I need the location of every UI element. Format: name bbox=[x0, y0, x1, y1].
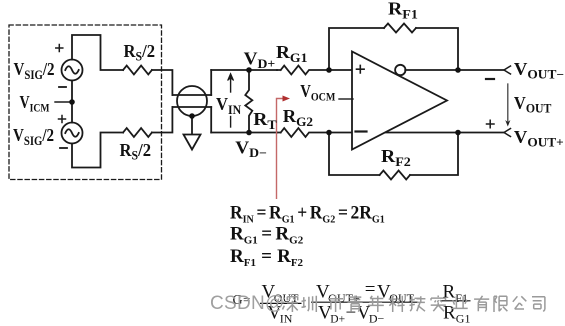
right bus of symbol bbox=[210, 70, 212, 133]
wire R_F2 to output bbox=[410, 133, 458, 176]
ground bbox=[184, 135, 201, 150]
node VD+ bbox=[246, 67, 252, 73]
wire R_F1 to output bbox=[416, 28, 458, 70]
svg-text:CSDN@: CSDN@ bbox=[210, 293, 285, 314]
label R_F1 bbox=[388, 0, 418, 21]
svg-text:RIN = RG1 + RG2 = 2RG1: RIN = RG1 + RG2 = 2RG1 bbox=[230, 202, 385, 226]
resistor R_G2 bbox=[277, 128, 352, 137]
label R_T bbox=[253, 110, 277, 132]
V_IN lower dash bbox=[230, 117, 232, 128]
node out+ bbox=[455, 130, 461, 136]
formula lines bbox=[230, 202, 385, 269]
node amp in- bbox=[326, 130, 332, 136]
label RS/2 bottom bbox=[120, 141, 152, 163]
svg-text:R: R bbox=[443, 282, 456, 303]
node V_ICM bbox=[69, 99, 75, 105]
VD+ rail bbox=[211, 69, 277, 71]
resistor R_F1 bbox=[384, 24, 416, 33]
dashed source box bbox=[9, 25, 162, 180]
label V_OUT bbox=[514, 94, 552, 116]
wire V_ICM lead bbox=[55, 101, 72, 103]
op-amp U1 bbox=[352, 52, 447, 150]
output inversion bubble bbox=[395, 65, 405, 75]
feedback wire R_F1 bbox=[329, 28, 384, 70]
plus mark top source bbox=[56, 45, 63, 52]
label R_G2 bbox=[283, 106, 313, 128]
resistor RS/2 top bbox=[123, 66, 152, 75]
label V_SIG/2 bottom bbox=[13, 125, 54, 148]
resistor RS/2 bottom bbox=[123, 128, 152, 137]
node out- bbox=[455, 67, 461, 73]
junction node dots bbox=[69, 67, 461, 135]
gain formula bbox=[233, 279, 471, 326]
op-amp plus mark bbox=[357, 65, 365, 73]
minus mark top source bbox=[59, 86, 66, 88]
node symbol ground tap bbox=[189, 113, 195, 119]
watermark hanzi strokes bbox=[283, 296, 545, 313]
frac bar 2 bbox=[311, 301, 418, 303]
wire out- rail bbox=[405, 69, 504, 71]
wire RS/2 top to symbol bbox=[152, 70, 173, 95]
node amp in+ bbox=[326, 67, 332, 73]
VD- rail bbox=[211, 132, 277, 134]
plus mark out+ bbox=[487, 120, 495, 128]
label V_OUT+ bbox=[514, 128, 564, 150]
minus mark out- bbox=[486, 78, 494, 80]
frac bar 3 bbox=[441, 300, 471, 302]
label V_ICM bbox=[20, 94, 50, 115]
chord top bbox=[172, 94, 211, 96]
label V_IN bbox=[216, 95, 241, 117]
chevron out+ bbox=[504, 129, 511, 137]
label R_F2 bbox=[381, 147, 411, 169]
wire top source to RS/2 bbox=[72, 35, 123, 70]
V_OCM lead bbox=[339, 98, 353, 100]
V_OUT arrow bbox=[507, 84, 509, 122]
resistor R_F2 bbox=[380, 171, 410, 180]
label VD+ bbox=[244, 49, 276, 71]
red annotation arrow bbox=[277, 96, 291, 200]
label V_SIG/2 top bbox=[14, 59, 55, 82]
minus mark bottom source bbox=[60, 147, 67, 149]
chevron out- bbox=[504, 66, 511, 74]
resistor R_T bbox=[245, 70, 252, 133]
node VD- bbox=[246, 130, 252, 136]
frac bar 1 bbox=[260, 302, 302, 304]
wire mid source node bbox=[71, 81, 73, 123]
wire out+ rail bbox=[386, 132, 504, 134]
svg-text:G1: G1 bbox=[456, 312, 471, 326]
svg-text:=: = bbox=[365, 279, 376, 300]
op-amp minus mark bbox=[356, 130, 367, 132]
svg-text:D−: D− bbox=[369, 312, 385, 326]
label VD- bbox=[235, 138, 267, 160]
svg-text:D+: D+ bbox=[330, 314, 345, 326]
label R_G1 bbox=[276, 43, 307, 65]
wire bottom source to RS/2 bbox=[72, 133, 123, 168]
resistor R_G1 bbox=[277, 66, 352, 75]
V_IN arrow bbox=[230, 78, 232, 92]
wire RS/2 bottom to symbol bbox=[152, 107, 173, 133]
label V_OCM bbox=[300, 83, 336, 104]
feedback wire R_F2 bbox=[329, 133, 380, 176]
label RS/2 top bbox=[124, 42, 156, 64]
ground stem bbox=[191, 116, 193, 135]
source-follower circle symbol bbox=[177, 86, 207, 116]
formula R_IN bbox=[230, 202, 385, 226]
source V_SIG/2 top bbox=[62, 60, 83, 81]
label V_OUT- bbox=[514, 60, 564, 82]
plus mark bottom source bbox=[59, 116, 66, 123]
source V_SIG/2 bottom bbox=[62, 123, 83, 144]
chord bottom bbox=[172, 106, 211, 108]
